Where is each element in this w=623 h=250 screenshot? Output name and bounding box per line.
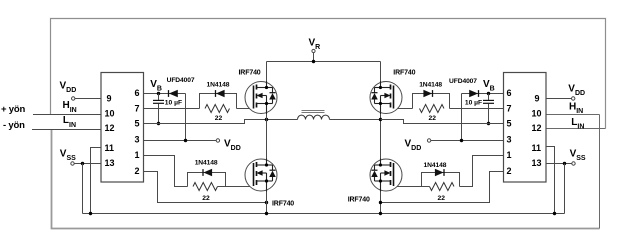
svg-text:1: 1 xyxy=(507,150,512,160)
wire pin7 HO right xyxy=(450,108,504,110)
svg-text:10: 10 xyxy=(105,109,115,119)
capacitor C1 10uF xyxy=(153,94,164,124)
svg-text:1: 1 xyxy=(135,150,140,160)
junction VB right xyxy=(487,92,490,95)
wire LIN-right stub xyxy=(546,128,606,130)
junction Q4 source right xyxy=(379,201,382,204)
resistor R2 zigzag xyxy=(420,105,445,113)
wire pin6 VB right xyxy=(462,93,504,95)
wire pin2 COM left xyxy=(144,172,267,203)
diode D2 UFD4007 xyxy=(469,90,478,97)
wire right leg drain-source column xyxy=(380,62,382,214)
svg-text:7: 7 xyxy=(507,103,512,113)
wire pin1 LO left xyxy=(144,156,188,187)
wire HIN-left input xyxy=(33,114,101,116)
terminal VSS right xyxy=(572,162,575,165)
svg-text:12: 12 xyxy=(105,123,115,133)
wire top rail HIN-left to LIN-right xyxy=(51,19,606,129)
junction C2 to VS right xyxy=(487,122,490,125)
diode D1 UFD4007 xyxy=(169,90,178,97)
svg-text:UFD4007: UFD4007 xyxy=(449,78,477,85)
wire inductor to right phase node xyxy=(330,119,381,121)
wire R2 to Q2 gate xyxy=(393,108,413,110)
terminal VR xyxy=(313,53,315,62)
junction bus pin11-left xyxy=(89,212,92,215)
terminal VSS left xyxy=(71,162,74,165)
svg-text:IRF740: IRF740 xyxy=(272,200,294,207)
svg-text:+ yön: + yön xyxy=(1,104,25,115)
terminal VDD right-top xyxy=(572,97,575,100)
transistor Q3 IRF740 low-side left xyxy=(245,159,277,192)
junction VSS left xyxy=(81,162,84,165)
svg-text:10: 10 xyxy=(532,109,542,119)
svg-text:IRF740: IRF740 xyxy=(239,70,261,77)
svg-text:IRF740: IRF740 xyxy=(393,70,415,77)
junction VDD right xyxy=(460,139,463,142)
junction VS left xyxy=(265,118,268,121)
svg-text:5: 5 xyxy=(507,119,512,129)
resistor R2 22 network frame xyxy=(413,94,450,109)
wire pin6 VB left xyxy=(144,93,186,95)
resistor R1 22 network frame xyxy=(200,94,237,109)
inductor L1 core xyxy=(302,110,325,112)
svg-text:13: 13 xyxy=(105,158,115,168)
svg-text:3: 3 xyxy=(135,135,140,145)
diode D6 1N4148 xyxy=(435,169,444,176)
wire pin7 HO left xyxy=(144,108,200,110)
wire R4 to Q4 gate xyxy=(393,186,430,188)
svg-text:11: 11 xyxy=(532,143,542,153)
wire R3 to Q3 gate xyxy=(218,186,255,188)
inductor L1 xyxy=(298,115,330,119)
svg-text:1N4148: 1N4148 xyxy=(419,81,442,88)
svg-text:10 µF: 10 µF xyxy=(465,100,482,107)
capacitor C2 10uF xyxy=(483,94,494,124)
wire pin3 VDD right xyxy=(431,140,504,142)
wire pin13 left xyxy=(74,163,101,165)
wire HIN-right riser xyxy=(599,115,601,229)
svg-text:10 µF: 10 µF xyxy=(165,100,182,107)
junction VB left xyxy=(157,92,160,95)
svg-text:22: 22 xyxy=(215,115,223,122)
svg-text:22: 22 xyxy=(438,195,446,202)
svg-text:9: 9 xyxy=(535,94,540,104)
diode D3 1N4148 xyxy=(216,90,225,97)
terminal VDD mid-left xyxy=(216,139,219,142)
wire VSS right drop xyxy=(564,164,566,214)
svg-text:13: 13 xyxy=(532,158,542,168)
resistor R4 zigzag xyxy=(430,183,455,191)
junction VDD left xyxy=(184,139,187,142)
resistor R1 zigzag xyxy=(205,105,230,113)
svg-text:7: 7 xyxy=(135,103,140,113)
svg-text:6: 6 xyxy=(507,88,512,98)
svg-text:12: 12 xyxy=(532,123,542,133)
resistor R4 22 network frame xyxy=(422,173,460,187)
op-amp U1 driver IC left xyxy=(101,73,144,183)
resistor R3 22 network frame xyxy=(188,173,226,187)
wire D2 anode to VDD xyxy=(461,94,463,141)
svg-text:1N4148: 1N4148 xyxy=(207,81,230,88)
resistor R3 zigzag xyxy=(193,183,218,191)
junction VS right xyxy=(379,118,382,121)
svg-text:9: 9 xyxy=(107,94,112,104)
transistor Q4 IRF740 low-side right xyxy=(370,159,402,192)
wire pin11 left xyxy=(91,148,102,214)
wire left leg drain-source column xyxy=(266,62,268,214)
svg-text:6: 6 xyxy=(135,88,140,98)
junction left leg bus xyxy=(265,212,268,215)
diode D5 1N4148 xyxy=(203,169,212,176)
wire D1 anode to VDD xyxy=(185,94,187,141)
wire pin13 right xyxy=(546,163,572,165)
svg-text:3: 3 xyxy=(507,135,512,145)
wire R1 to Q1 gate xyxy=(237,108,255,110)
diode D4 1N4148 xyxy=(423,90,432,97)
wire LIN-left input xyxy=(32,129,101,131)
wire bottom rail LIN-left to HIN-right xyxy=(52,130,600,229)
wire pin1 LO right xyxy=(460,156,504,187)
junction C1 to VS left xyxy=(157,122,160,125)
transistor Q2 IRF740 high-side right xyxy=(370,81,402,114)
svg-text:2: 2 xyxy=(135,166,140,176)
junction VSS right xyxy=(563,162,566,165)
junction Q3 source left xyxy=(265,201,268,204)
terminal VDD mid-right xyxy=(427,139,430,142)
svg-text:1N4148: 1N4148 xyxy=(195,160,218,167)
svg-text:5: 5 xyxy=(135,119,140,129)
svg-text:1N4148: 1N4148 xyxy=(424,162,447,169)
wire HIN-right stub xyxy=(546,114,600,116)
op-amp U2 driver IC right xyxy=(504,73,547,183)
junction right leg bus xyxy=(379,212,382,215)
wire pin9 right xyxy=(546,98,572,100)
svg-text:22: 22 xyxy=(202,195,210,202)
wire pin2 COM right xyxy=(381,172,504,203)
wire phase node to inductor xyxy=(267,119,298,121)
terminal VDD left-top xyxy=(72,97,75,100)
wire pin5 VS right xyxy=(381,120,504,124)
svg-text:UFD4007: UFD4007 xyxy=(167,77,195,84)
wire pin9 left xyxy=(75,98,101,100)
wire VSS left drop xyxy=(82,164,84,214)
wire VR rail xyxy=(267,61,381,63)
wire pin11 right xyxy=(546,147,555,214)
svg-text:11: 11 xyxy=(105,143,115,153)
wire pin5 VS left xyxy=(144,120,267,124)
svg-text:IRF740: IRF740 xyxy=(348,196,370,203)
transistor Q1 IRF740 high-side left xyxy=(245,81,277,114)
ground bus COM xyxy=(83,213,565,215)
svg-text:- yön: - yön xyxy=(3,120,25,131)
wire pin3 VDD left xyxy=(144,140,217,142)
junction bus pin11-right xyxy=(553,212,556,215)
svg-text:22: 22 xyxy=(429,115,437,122)
junction VR xyxy=(312,60,315,63)
svg-text:2: 2 xyxy=(507,166,512,176)
